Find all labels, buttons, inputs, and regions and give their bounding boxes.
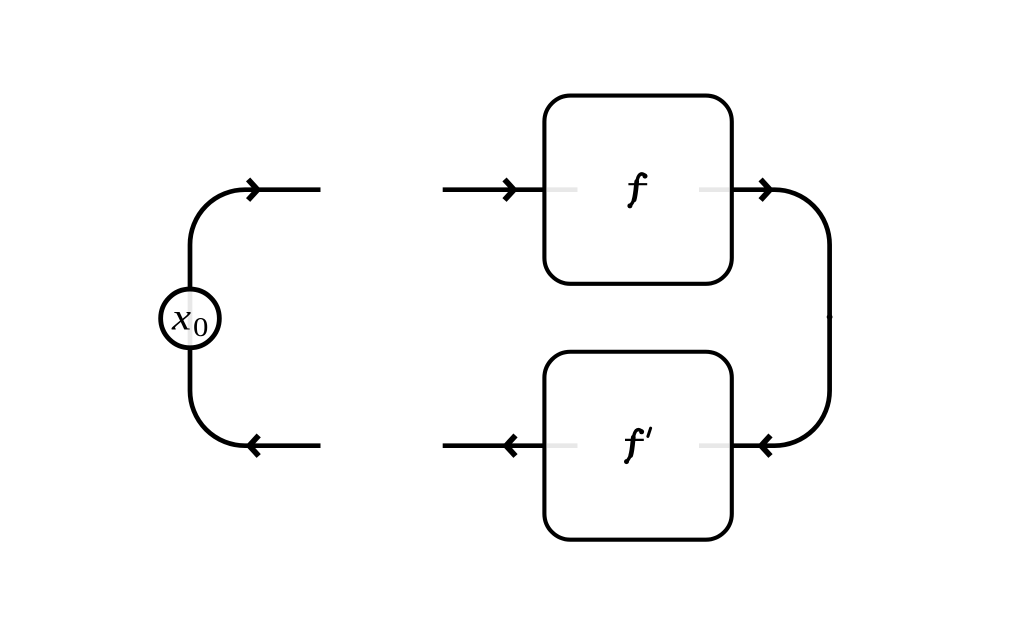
svg-text:0: 0 <box>193 312 208 342</box>
wire: output of box f' <box>443 443 546 448</box>
label x0: subscript 0 <box>193 312 208 342</box>
wire stub (faint) inside f, right <box>699 187 729 192</box>
arrow A5: leftward into box f' <box>761 435 770 456</box>
wire stub (faint) through node x0 <box>188 291 193 346</box>
label x0: x <box>171 296 191 338</box>
arrow A3: rightward into box f <box>505 179 514 200</box>
arrow A2: leftward on bottom cup wire <box>249 435 258 456</box>
wire: input into box f <box>443 187 546 192</box>
wire stub (faint) inside f', left <box>547 443 578 448</box>
svg-text:x: x <box>171 296 191 338</box>
node x0: circle outline <box>161 289 220 348</box>
label f prime tick <box>648 428 651 436</box>
wire stub (faint) inside f, left <box>547 187 578 192</box>
box f' <box>544 352 731 540</box>
arrow A4: rightward out of box f <box>761 179 770 200</box>
arrow A6: leftward out of box f' <box>506 435 515 456</box>
wire: left cup (state loop) <box>190 190 321 446</box>
node x0: white disc <box>161 289 220 348</box>
box f <box>544 96 731 284</box>
label f' (math italic, drawn) <box>624 429 644 464</box>
label f (math italic, drawn) <box>627 174 647 209</box>
arrow A1: rightward on top cup wire <box>248 179 257 200</box>
wire stub (faint) inside f', right <box>699 443 729 448</box>
wire: connector from f output around the right side into f' input <box>732 190 830 446</box>
node: junction knot on right connector <box>827 314 833 320</box>
